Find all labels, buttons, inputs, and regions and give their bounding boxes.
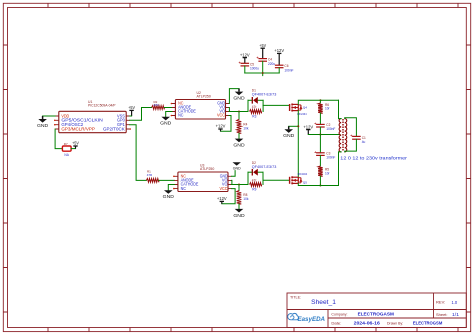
svg-text:GND: GND — [233, 96, 244, 101]
wire R2 to U2 ANODE — [164, 107, 172, 109]
svg-text:QF4007-E3/73: QF4007-E3/73 — [252, 93, 277, 97]
svg-text:GND: GND — [163, 194, 174, 199]
svg-text:ATLP250: ATLP250 — [200, 167, 214, 171]
wire U2 VO to network — [229, 111, 248, 113]
node wires around D1/R3 — [247, 100, 249, 111]
transformer core — [341, 119, 343, 152]
svg-text:+12V: +12V — [303, 124, 313, 129]
svg-text:2024-06-16: 2024-06-16 — [354, 321, 381, 326]
svg-text:GND: GND — [233, 167, 241, 171]
svg-text:REV:: REV: — [436, 300, 445, 305]
wire R7 to +5V — [71, 148, 75, 150]
capacitor C2 100nF — [319, 113, 321, 124]
wire U3 VO pins joined — [231, 180, 233, 184]
U1 pins — [55, 116, 129, 129]
wire cap bank bus — [245, 72, 279, 74]
svg-text:47R: 47R — [153, 103, 159, 107]
svg-text:+5V: +5V — [72, 141, 79, 146]
ground G1 at U1 VDD — [43, 115, 56, 117]
resistor R9 47r — [250, 183, 262, 187]
svg-text:+: + — [314, 149, 317, 154]
svg-text:10r: 10r — [325, 171, 331, 175]
svg-text:Sheet_1: Sheet_1 — [311, 299, 336, 306]
resistor R4 10k — [238, 112, 240, 120]
svg-text:100nF: 100nF — [284, 68, 293, 72]
svg-text:ELECTROGSM: ELECTROGSM — [413, 321, 442, 326]
IC U1 PIC12C509A-04/P — [59, 111, 126, 132]
resistor R5 10r — [319, 155, 321, 166]
wire U2 VCC to +12V — [221, 116, 232, 132]
svg-text:ATLP250: ATLP250 — [197, 95, 211, 99]
wire network to Q5 gate — [263, 179, 289, 181]
wire secondary loop top — [345, 118, 357, 137]
resistor R7 (NA) — [62, 146, 71, 151]
svg-text:NA: NA — [64, 153, 69, 157]
ground G4 below R4 — [238, 133, 240, 138]
svg-text:47R: 47R — [147, 173, 153, 177]
svg-text:R9: R9 — [252, 187, 256, 191]
svg-text:220u: 220u — [268, 62, 275, 66]
svg-text:GND: GND — [233, 213, 244, 218]
wire secondary loop bottom — [345, 139, 357, 152]
svg-text:10r: 10r — [325, 107, 331, 111]
svg-text:Date:: Date: — [331, 320, 341, 325]
svg-text:GP2/T0CK: GP2/T0CK — [103, 126, 125, 131]
svg-text:Company:: Company: — [331, 311, 347, 316]
svg-text:+12V: +12V — [274, 48, 284, 53]
svg-text:4u: 4u — [362, 140, 366, 144]
resistor R2 47R — [152, 106, 165, 110]
svg-text:NC: NC — [181, 186, 186, 191]
svg-text:+: + — [314, 121, 317, 126]
wire +12V to center tap — [308, 134, 340, 136]
title block — [287, 293, 466, 328]
capacitor C3 100nF — [319, 135, 321, 153]
ground G5 at Q4 source — [289, 125, 299, 127]
ground G3 — [238, 89, 240, 92]
svg-text:TITLE:: TITLE: — [290, 295, 301, 299]
svg-text:Sheet:: Sheet: — [436, 312, 448, 317]
svg-text:1000u: 1000u — [250, 67, 259, 71]
diode D2 QF4007-E3/73 — [251, 169, 253, 176]
svg-text:10k: 10k — [243, 126, 249, 130]
ground G8 below R8 — [238, 204, 240, 209]
U3 unconnected pin dots — [173, 176, 175, 178]
diode D1 QF4007-E3/73 — [251, 97, 253, 104]
wire Q4 drain to top bus — [298, 100, 338, 104]
svg-text:IRF2464: IRF2464 — [298, 172, 308, 176]
svg-text:+12V: +12V — [216, 124, 226, 129]
transformer T1 secondary coil — [345, 119, 347, 152]
svg-text:+12V: +12V — [240, 52, 250, 57]
svg-text:10k: 10k — [243, 197, 249, 201]
wire U3 VCC to +12V — [222, 189, 235, 204]
wire U2 VO pins joined — [228, 108, 230, 112]
svg-text:+: + — [350, 133, 353, 138]
wire U1 GP3/MCLR to R7 — [55, 129, 62, 149]
svg-text:NC: NC — [178, 113, 183, 118]
svg-text:+: + — [239, 60, 242, 65]
svg-text:Q5: Q5 — [303, 180, 307, 184]
ground G6 at U3 CATHODE — [168, 185, 174, 191]
svg-text:GND: GND — [233, 143, 244, 148]
svg-text:100nF: 100nF — [326, 127, 335, 131]
svg-text:QF4007-E3/73: QF4007-E3/73 — [252, 165, 277, 169]
svg-text:+: + — [256, 55, 259, 60]
svg-text:100nF: 100nF — [326, 156, 335, 160]
ground G7 at U3 GND pin — [233, 162, 241, 165]
resistor R1 47R — [146, 179, 158, 183]
wire R1 to U3 ANODE — [159, 179, 175, 181]
svg-text:12 0 12 to 230v transformer: 12 0 12 to 230v transformer — [340, 155, 407, 161]
U2 unconnected pin dots — [171, 103, 173, 105]
wire U3 VO to network — [232, 184, 249, 186]
svg-text:Q4: Q4 — [303, 106, 307, 110]
ground G2 at U2 CATHODE — [166, 112, 172, 117]
svg-text:PIC12C509A-04/P: PIC12C509A-04/P — [88, 104, 116, 108]
svg-text:ELECTROGASM: ELECTROGASM — [358, 312, 394, 318]
svg-text:R3: R3 — [252, 114, 256, 118]
resistor R3 47r — [250, 110, 262, 114]
wire U2 GND pin to ground G3 — [229, 89, 239, 104]
U3 pins — [174, 176, 231, 188]
svg-text:VCC: VCC — [217, 113, 225, 118]
transistor Q4 IRF2464 — [289, 104, 291, 111]
transistor Q5 IRF2464 — [289, 177, 291, 184]
wire U1 GP0 to R2 — [130, 108, 152, 121]
IC U3 ATLP250 — [178, 172, 228, 192]
svg-text:GP3/MCLR/VPP: GP3/MCLR/VPP — [61, 126, 95, 131]
svg-text:GND: GND — [37, 123, 48, 128]
resistor R8 10k — [238, 185, 240, 191]
svg-text:+12V: +12V — [217, 196, 227, 201]
EasyEDA logo — [288, 313, 299, 319]
IC U2 ATLP250 — [175, 100, 225, 120]
svg-text:1/1: 1/1 — [452, 312, 460, 317]
svg-text:+5V: +5V — [259, 43, 266, 48]
svg-text:1.0: 1.0 — [452, 300, 458, 305]
resistor R6 10r — [319, 99, 321, 101]
wire Q4 source down to Q5 — [297, 111, 299, 178]
U1 unconnected pin dots — [54, 120, 56, 122]
svg-text:VCC: VCC — [220, 186, 228, 191]
transformer T1 primary wires — [338, 100, 340, 118]
wire Q5 drain to bottom bus — [298, 183, 338, 185]
U2 pins — [172, 104, 229, 116]
svg-text:GND: GND — [283, 133, 294, 138]
svg-text:R7: R7 — [64, 142, 68, 146]
transformer T1 primary coil — [339, 119, 341, 152]
capacitor C6 100nF — [275, 64, 284, 66]
node wires around D2/R9 — [247, 172, 249, 184]
svg-text:+5V: +5V — [128, 105, 135, 110]
svg-text:GND: GND — [160, 121, 171, 126]
svg-text:Drawn By:: Drawn By: — [387, 320, 403, 325]
wire network to Q4 gate — [263, 104, 289, 106]
wire U1 GP1 to R1 — [130, 125, 147, 181]
svg-text:EasyEDA: EasyEDA — [298, 316, 326, 323]
